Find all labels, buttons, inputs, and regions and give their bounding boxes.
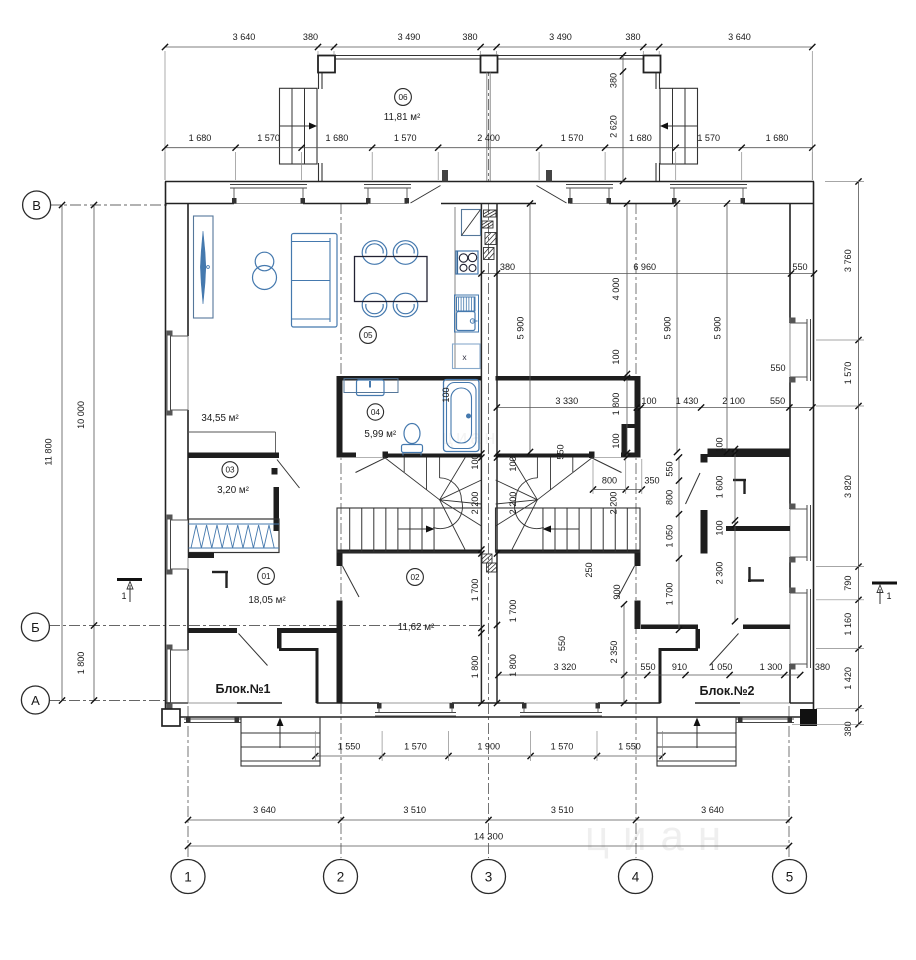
svg-text:1 700: 1 700 <box>470 579 480 602</box>
bathroom04 top wall <box>337 376 482 381</box>
svg-text:1: 1 <box>886 591 891 601</box>
svg-text:5 900: 5 900 <box>663 317 673 340</box>
terrace rail top right segment <box>498 56 644 60</box>
svg-text:1 700: 1 700 <box>665 583 675 606</box>
svg-text:А: А <box>31 693 40 708</box>
toilet bathroom04 <box>402 424 423 456</box>
window BW2' bottom <box>520 703 602 716</box>
room02 left wall <box>337 601 343 704</box>
svg-text:100: 100 <box>470 454 480 469</box>
room02b door leaf <box>618 566 635 597</box>
svg-text:34,55 м²: 34,55 м² <box>201 413 239 424</box>
block2 dim 5900 b <box>663 200 681 455</box>
room02 door leaf <box>343 566 360 597</box>
room 01 label <box>248 568 286 606</box>
kitchen counter edge <box>454 207 456 368</box>
party wall duct hatches upper <box>482 210 496 260</box>
svg-text:800: 800 <box>602 476 617 486</box>
svg-text:1 570: 1 570 <box>697 133 720 143</box>
svg-text:1 420: 1 420 <box>843 667 853 690</box>
svg-text:790: 790 <box>843 576 853 591</box>
svg-text:5 900: 5 900 <box>713 317 723 340</box>
svg-text:100: 100 <box>441 387 451 402</box>
svg-text:550: 550 <box>556 444 566 459</box>
block2 dim 4000 chain <box>611 200 630 460</box>
bathroom04 bottom wall <box>384 454 482 458</box>
axis line A horizontal <box>49 700 168 702</box>
svg-text:04: 04 <box>371 408 381 417</box>
svg-text:3 760: 3 760 <box>843 249 853 272</box>
dining chair BL <box>362 293 387 317</box>
terrace post right <box>644 56 661 73</box>
left wall inner line <box>187 204 189 704</box>
svg-text:5: 5 <box>786 869 794 884</box>
svg-text:1 800: 1 800 <box>611 393 621 416</box>
porch block2 steps <box>657 717 736 766</box>
terrace door block1 leaf <box>411 186 441 204</box>
svg-text:100: 100 <box>641 396 656 406</box>
svg-text:3 320: 3 320 <box>554 662 577 672</box>
top dimension row 1 <box>162 32 816 180</box>
right dimension column <box>792 178 864 736</box>
svg-text:4 000: 4 000 <box>611 278 621 301</box>
top wall outer line <box>165 181 814 183</box>
svg-text:1: 1 <box>121 591 126 601</box>
corner mark hall1 <box>212 572 228 588</box>
svg-text:2 200: 2 200 <box>609 492 619 515</box>
right wall inner line <box>789 204 791 704</box>
axis line 3 vertical <box>488 59 490 858</box>
svg-text:800: 800 <box>665 490 675 505</box>
svg-text:1 800: 1 800 <box>470 656 480 679</box>
block2 dim row 3330 <box>494 396 816 411</box>
svg-text:5,99 м²: 5,99 м² <box>364 429 397 440</box>
closet2 bottom wall <box>726 526 790 531</box>
svg-text:550: 550 <box>770 363 785 373</box>
vestibule2 wall horizontal <box>659 648 699 651</box>
terrace post left <box>318 56 335 73</box>
bottom wall outer line <box>165 716 814 718</box>
terrace stair left <box>280 88 318 164</box>
axis line 5 vertical <box>788 706 790 858</box>
svg-text:05: 05 <box>363 331 373 340</box>
svg-text:1 050: 1 050 <box>710 662 733 672</box>
vestibule2 wall down <box>659 651 662 703</box>
bathroom04b niche stub <box>622 424 641 458</box>
axis line B horizontal <box>50 204 168 206</box>
room 04 label <box>364 404 397 440</box>
closet2 left wall <box>701 510 708 554</box>
svg-text:02: 02 <box>410 573 420 582</box>
bathroom04 left wall <box>337 376 357 458</box>
window R3 right wall <box>790 588 811 670</box>
terrace stair right <box>660 88 698 164</box>
stair2 wall stub <box>635 554 641 567</box>
svg-text:3 510: 3 510 <box>551 805 574 815</box>
stair2 bottom wall <box>496 550 641 554</box>
svg-text:11,81 м²: 11,81 м² <box>384 112 421 123</box>
svg-text:03: 03 <box>225 466 235 475</box>
hall02b bottom wall left <box>641 625 698 630</box>
stair1 bottom wall <box>337 550 482 554</box>
axis line 4 vertical <box>635 203 637 858</box>
misc dim 550 b <box>557 636 567 651</box>
washbasin bathroom04 <box>344 379 398 396</box>
corner post bottom-right <box>800 709 817 726</box>
axis circle 1 <box>171 860 205 894</box>
left dim 10000/1800 <box>76 202 97 704</box>
window BW1 bottom <box>375 703 456 716</box>
misc dim 250 <box>584 562 594 577</box>
section mark right <box>872 583 897 604</box>
bottom dimension row upper <box>312 731 665 761</box>
bathroom04b door post <box>589 452 595 459</box>
svg-text:1 700: 1 700 <box>508 600 518 623</box>
svg-text:380: 380 <box>462 32 477 42</box>
block2 label <box>699 684 754 698</box>
svg-text:11,62 м²: 11,62 м² <box>398 622 435 633</box>
svg-text:100: 100 <box>715 520 725 535</box>
svg-text:380: 380 <box>625 32 640 42</box>
staircase block2 <box>496 457 641 553</box>
top dimension row 2 <box>162 133 816 180</box>
closet2 door leaf <box>686 473 701 504</box>
room03 top wall <box>188 453 279 459</box>
window W1 top-left <box>230 185 307 204</box>
svg-text:380: 380 <box>500 262 515 272</box>
svg-text:3: 3 <box>485 869 493 884</box>
hall01 bottom wall right <box>279 628 337 633</box>
misc dim 900 <box>612 584 622 599</box>
room 06 number circle <box>395 89 412 106</box>
axis circle 5 <box>773 860 807 894</box>
closet2 door post <box>701 454 708 463</box>
bathroom04b door leaf <box>592 458 622 473</box>
svg-text:3 640: 3 640 <box>233 32 256 42</box>
bathroom04b top wall <box>496 376 641 381</box>
room 05 label <box>360 327 377 344</box>
kitchen cabinet x <box>453 344 481 369</box>
top wall inner line <box>165 203 814 205</box>
terrace rail left edge <box>319 73 323 182</box>
hall02b door leaf <box>710 634 739 666</box>
svg-text:4: 4 <box>632 869 640 884</box>
svg-text:3 640: 3 640 <box>253 805 276 815</box>
svg-text:3 330: 3 330 <box>555 396 578 406</box>
vestibule1 wall horizontal <box>279 648 319 651</box>
axis circle Bb <box>21 613 49 641</box>
svg-text:550: 550 <box>557 636 567 651</box>
wardrobe room03 <box>189 519 280 553</box>
block2 dim chain right b <box>715 437 739 624</box>
svg-text:1 300: 1 300 <box>760 662 783 672</box>
corner mark hall2 <box>748 567 764 582</box>
axis line Bb horizontal <box>49 625 483 627</box>
kitchen corner cabinet <box>462 210 481 236</box>
svg-text:1 570: 1 570 <box>257 133 280 143</box>
svg-text:380: 380 <box>815 662 830 672</box>
bathroom04 door leaf <box>356 458 386 473</box>
vestibule2 wall vertical <box>696 629 701 649</box>
window BW3 bottom-left <box>184 717 241 723</box>
porch block1 steps <box>241 717 320 766</box>
tv unit living room <box>194 216 214 318</box>
svg-text:11 800: 11 800 <box>44 438 54 465</box>
svg-text:550: 550 <box>640 662 655 672</box>
block2 dim 5900 c <box>713 200 731 455</box>
svg-text:18,05 м²: 18,05 м² <box>248 595 286 606</box>
dining chair BR <box>393 293 418 317</box>
svg-text:910: 910 <box>672 662 687 672</box>
svg-text:1 160: 1 160 <box>843 613 853 636</box>
window L2 left wall <box>167 515 189 575</box>
svg-text:100: 100 <box>611 433 621 448</box>
svg-text:2 200: 2 200 <box>508 492 518 515</box>
dining chair TR <box>393 241 418 265</box>
section mark left <box>117 580 142 603</box>
watermark <box>442 427 735 859</box>
vestibule1 wall down <box>316 651 319 703</box>
svg-text:380: 380 <box>303 32 318 42</box>
bottom dimension row axes <box>185 805 792 823</box>
sofa living room <box>292 234 338 328</box>
svg-text:06: 06 <box>398 93 408 102</box>
window BW3' bottom-right <box>736 717 794 723</box>
terrace divider wall <box>487 73 490 182</box>
hall02b bottom wall right <box>743 625 790 630</box>
svg-text:1 430: 1 430 <box>676 396 699 406</box>
room 02 label <box>398 569 435 633</box>
top wall pilaster right <box>546 170 552 182</box>
svg-text:6 960: 6 960 <box>633 262 656 272</box>
svg-text:2 350: 2 350 <box>609 641 619 664</box>
kitchen stove <box>456 251 478 274</box>
svg-text:циан: циан <box>442 427 499 449</box>
block2 dim 2350 <box>609 601 627 706</box>
window L1 left wall <box>167 331 189 416</box>
svg-text:1 570: 1 570 <box>843 362 853 385</box>
misc dim 550 a <box>556 444 566 459</box>
terrace rail right edge <box>656 73 660 182</box>
room03 door post <box>272 468 278 475</box>
svg-text:1 800: 1 800 <box>508 654 518 677</box>
block1 dim chain center <box>470 450 485 706</box>
axis circle 3 <box>472 860 506 894</box>
room 03 label <box>217 462 250 496</box>
svg-text:100: 100 <box>508 456 518 471</box>
window R1 right wall <box>790 318 811 383</box>
svg-text:550: 550 <box>665 461 675 476</box>
dining table <box>355 257 428 302</box>
misc dim 100 bath1 <box>441 387 451 402</box>
svg-text:350: 350 <box>644 476 659 486</box>
svg-text:3 820: 3 820 <box>843 475 853 498</box>
room 06 area label <box>384 112 421 123</box>
bottom wall inner line <box>165 702 814 704</box>
svg-text:380: 380 <box>843 721 853 736</box>
terrace door block2 leaf <box>537 186 567 204</box>
svg-text:1 900: 1 900 <box>477 742 500 752</box>
svg-text:5 900: 5 900 <box>516 317 526 340</box>
top wall pilaster left <box>442 170 448 182</box>
corner mark closet2 <box>733 480 746 494</box>
svg-text:2 100: 2 100 <box>722 396 745 406</box>
svg-text:циан: циан <box>585 812 735 859</box>
svg-text:3 490: 3 490 <box>549 32 572 42</box>
svg-text:1: 1 <box>184 869 192 884</box>
svg-text:380: 380 <box>609 73 619 88</box>
axis line 2 vertical <box>340 203 342 858</box>
block2 dim 5900 a <box>516 200 534 455</box>
pouf circles <box>253 252 277 289</box>
svg-text:Блок.№1: Блок.№1 <box>215 682 270 696</box>
svg-text:2: 2 <box>337 869 345 884</box>
svg-text:1 680: 1 680 <box>766 133 789 143</box>
left dim 11800 <box>44 202 66 704</box>
svg-text:2 200: 2 200 <box>470 492 480 515</box>
hall01 bottom wall left <box>188 628 237 633</box>
kitchen sink <box>455 295 479 332</box>
svg-text:3 640: 3 640 <box>728 32 751 42</box>
window W2 top-left <box>364 185 411 204</box>
room03 right wall <box>274 487 280 531</box>
svg-text:1 570: 1 570 <box>561 133 584 143</box>
room 05 area label <box>201 413 239 424</box>
svg-text:550: 550 <box>792 262 807 272</box>
terrace post middle <box>481 56 498 73</box>
bathroom04b bottom wall <box>496 454 594 458</box>
stair1 wall stub <box>337 554 343 567</box>
bottom dimension row total <box>185 832 792 850</box>
axis line 1 vertical <box>187 706 189 858</box>
svg-text:10 000: 10 000 <box>76 401 86 429</box>
bathroom04 door post <box>383 452 389 459</box>
block2 dim row 3320 <box>495 662 830 678</box>
svg-text:1 570: 1 570 <box>394 133 417 143</box>
svg-text:100: 100 <box>611 349 621 364</box>
bathroom04b right wall <box>621 376 641 458</box>
closet2 top wall <box>708 449 791 458</box>
svg-text:3 510: 3 510 <box>403 805 426 815</box>
svg-text:2 300: 2 300 <box>715 562 725 585</box>
window L3 left wall <box>167 645 189 709</box>
svg-text:Б: Б <box>31 620 40 635</box>
svg-text:1 680: 1 680 <box>189 133 212 143</box>
svg-text:1 050: 1 050 <box>665 525 675 548</box>
axis circle A <box>21 686 49 714</box>
svg-text:1 550: 1 550 <box>618 742 641 752</box>
hall01 door leaf <box>239 634 268 666</box>
svg-text:1 800: 1 800 <box>76 652 86 675</box>
bathtub bathroom04 <box>444 380 480 452</box>
dining chair TL <box>362 241 387 265</box>
terrace dim 380/2620 <box>609 52 627 184</box>
block2 dim chain right a <box>665 454 683 633</box>
svg-text:В: В <box>32 198 41 213</box>
svg-text:1 570: 1 570 <box>551 742 574 752</box>
block2 dim chain center <box>494 450 518 706</box>
block2 dim 2200 niche <box>609 492 619 515</box>
svg-text:250: 250 <box>584 562 594 577</box>
staircase block1 <box>337 457 482 553</box>
svg-text:Блок.№2: Блок.№2 <box>699 684 754 698</box>
window W1' top-right <box>670 185 747 204</box>
right wall outer line <box>813 182 815 718</box>
svg-text:3,20 м²: 3,20 м² <box>217 485 250 496</box>
svg-text:1 600: 1 600 <box>715 476 725 499</box>
svg-text:550: 550 <box>770 396 785 406</box>
party wall right face <box>496 204 498 704</box>
party wall duct hatches lower <box>482 554 497 572</box>
wardrobe bottom wall <box>188 553 214 559</box>
axis circle B <box>23 191 51 219</box>
terrace rail top left segment <box>335 56 481 60</box>
room03 door leaf <box>277 460 300 489</box>
vestibule1 wall vertical <box>277 628 282 649</box>
axis circle 4 <box>619 860 653 894</box>
block2 dim 800/350 <box>590 459 660 494</box>
svg-text:1 680: 1 680 <box>629 133 652 143</box>
svg-text:100: 100 <box>715 437 725 452</box>
misc dim 550 c <box>770 363 785 373</box>
svg-text:3 490: 3 490 <box>398 32 421 42</box>
svg-text:1 550: 1 550 <box>338 742 361 752</box>
room02b right wall <box>635 601 641 630</box>
window R2 right wall <box>790 504 811 563</box>
left wall outer line <box>165 182 167 718</box>
svg-text:900: 900 <box>612 584 622 599</box>
svg-text:2 620: 2 620 <box>609 115 619 138</box>
svg-text:1 570: 1 570 <box>404 742 427 752</box>
svg-text:01: 01 <box>261 572 271 581</box>
block1 label <box>215 682 270 696</box>
svg-text:14 300: 14 300 <box>474 832 503 843</box>
svg-text:2 400: 2 400 <box>477 133 500 143</box>
interior dim row y272 <box>478 262 817 277</box>
svg-text:1 680: 1 680 <box>326 133 349 143</box>
living room niche line <box>188 432 276 453</box>
axis circle 2 <box>324 860 358 894</box>
corner post bottom-left <box>162 709 180 726</box>
party wall left face <box>480 204 482 704</box>
window W2' top-right <box>566 185 613 204</box>
